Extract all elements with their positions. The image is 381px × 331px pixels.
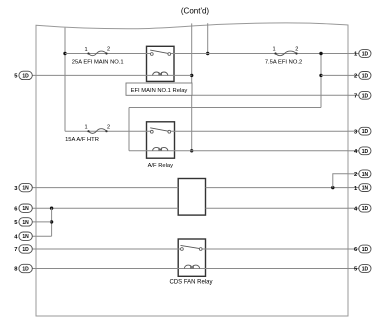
svg-text:1D: 1D — [362, 247, 369, 253]
connector 4 (1N) left — [14, 232, 32, 240]
connector 4 (1D) lower right — [354, 204, 371, 212]
connector 7 (1D) right — [354, 91, 371, 99]
wire row E (branch from x=321 down to A/F relay feed) — [129, 107, 321, 109]
connector 3 (1D) right — [354, 127, 371, 135]
wire row A left segment (fuse feed to relay switch) — [65, 53, 150, 55]
wire row B (coil feed from 5(1D) through relay coil) — [32, 74, 191, 76]
connector 1 (1D) right — [354, 50, 371, 58]
wire vertical x=321 (fuse output branch) — [320, 54, 322, 108]
coil of A/F Relay — [153, 147, 168, 150]
svg-text:1: 1 — [272, 47, 275, 53]
wire stub to connector 1 (1D) right — [348, 53, 359, 55]
svg-text:1D: 1D — [362, 129, 369, 135]
node junction at 321,75.4 — [319, 74, 322, 77]
svg-text:1N: 1N — [22, 234, 29, 240]
connector 6 (1N) left — [14, 204, 32, 212]
svg-text:7: 7 — [14, 247, 17, 253]
svg-text:1N: 1N — [22, 206, 29, 212]
svg-text:CDS FAN Relay: CDS FAN Relay — [169, 280, 212, 286]
node junction at 191.7,150.8 — [190, 149, 193, 152]
connector 2 (1D) right — [354, 72, 371, 80]
wire row J (5(1N) tie) — [32, 221, 51, 223]
svg-text:1N: 1N — [362, 172, 369, 178]
connector 5 (1D) right — [354, 265, 371, 273]
node junction at 191.7,75.4 — [190, 74, 193, 77]
relay U2 A/F Relay box — [147, 122, 175, 158]
wire vertical tie of 1N connectors — [51, 208, 53, 236]
svg-text:1N: 1N — [22, 186, 29, 192]
switch contact circles of EFI MAIN NO.1 Relay — [150, 53, 153, 56]
svg-text:1: 1 — [84, 125, 87, 131]
svg-text:1D: 1D — [362, 52, 369, 58]
wire row D (A/F relay coil row to 4(1D)) — [129, 150, 348, 152]
wire row L left (7(1D) to CDS fan relay switch) — [32, 248, 180, 250]
wire vertical coil bus from torn edge at x=191.7 — [191, 23, 193, 150]
wire row F (branch to 2(1D)) — [321, 74, 348, 76]
relay U1 EFI MAIN NO.1 Relay box — [147, 46, 175, 81]
svg-text:(Cont'd): (Cont'd) — [181, 7, 210, 16]
connector 7 (1D) left — [14, 245, 32, 253]
connector 8 (1D) left — [14, 264, 32, 272]
wire stub to connector 6 (1D) right — [348, 248, 359, 250]
node junction at 332.8,187.6 — [331, 186, 334, 189]
wire stub to connector 4 (1D) right — [348, 150, 359, 152]
connector 3 (1N) left — [14, 183, 32, 191]
wire stub to connector 7 (1D) right — [348, 94, 359, 96]
svg-text:15A A/F HTR: 15A A/F HTR — [65, 137, 99, 143]
wire vertical from torn edge at x=207.7 — [207, 23, 209, 53]
svg-text:2: 2 — [354, 74, 357, 80]
connector 5 (1N) left — [14, 218, 32, 226]
wire row C right segment (A/F relay output to 3(1D)) — [171, 130, 348, 132]
node junction at 65,53.5 — [63, 52, 66, 55]
svg-text:1D: 1D — [22, 267, 29, 273]
wire row G (boxed label to 7(1D)) — [192, 94, 348, 96]
center junction block box — [178, 179, 205, 216]
wire row I left (6(1N) to center box) — [32, 207, 178, 209]
wire stub to connector 4 (1D) lower right — [348, 207, 359, 209]
switch contact circles of A/F Relay — [150, 130, 153, 133]
connector 2 (1N) right — [354, 170, 371, 178]
coil of CDS FAN Relay — [184, 265, 199, 268]
svg-text:2: 2 — [354, 172, 357, 178]
boxed label EFI MAIN NO.1 Relay — [126, 83, 192, 95]
node junction at 321,53.5 — [319, 52, 322, 55]
svg-text:1D: 1D — [362, 206, 369, 212]
wire stub to connector 5 (1D) right — [348, 268, 359, 270]
svg-text:1D: 1D — [362, 73, 369, 79]
svg-text:1D: 1D — [362, 93, 369, 99]
wire row I right (center box to 4(1D)) — [206, 207, 349, 209]
svg-text:1D: 1D — [22, 247, 29, 253]
switch blade of CDS FAN Relay — [181, 245, 200, 248]
svg-text:25A EFI MAIN NO.1: 25A EFI MAIN NO.1 — [72, 60, 124, 66]
connector 4 (1D) right — [354, 147, 371, 155]
wire row H left (3(1N) to center box) — [32, 187, 178, 189]
relay U3 CDS FAN Relay box — [178, 239, 205, 276]
node junction at 207.7,53.5 — [206, 52, 209, 55]
wire row K (4(1N) tie) — [32, 235, 51, 237]
svg-text:1N: 1N — [22, 220, 29, 226]
node junction at 51.6,208.2 — [50, 207, 53, 210]
connector 6 (1D) right — [354, 245, 371, 253]
wire row C left segment (A/F HTR fuse row) — [65, 130, 150, 132]
wire stub to connector 1 (1N) right — [348, 187, 359, 189]
svg-text:1N: 1N — [362, 186, 369, 192]
wire vertical x=129 (down to A/F relay coil) — [128, 108, 130, 151]
wire stub to connector 3 (1D) right — [348, 130, 359, 132]
wire row A right segment (relay output to fuse EFI NO.2 and 1(1D)) — [171, 53, 348, 55]
svg-text:7.5A EFI NO.2: 7.5A EFI NO.2 — [265, 60, 302, 66]
svg-text:2: 2 — [295, 46, 298, 52]
svg-text:1: 1 — [84, 47, 87, 53]
switch blade of EFI MAIN NO.1 Relay — [150, 50, 169, 54]
connector 5 (1D) left — [14, 71, 32, 79]
wire row H right (center box to 1(1N)) — [206, 187, 349, 189]
fuse 15A A/F HTR — [89, 129, 107, 134]
svg-text:2: 2 — [107, 47, 110, 53]
svg-text:2: 2 — [107, 124, 110, 130]
wire vertical bus from torn edge at x=65 — [64, 28, 66, 132]
switch contact circles of CDS FAN Relay — [181, 248, 184, 251]
svg-text:1D: 1D — [362, 267, 369, 273]
wire stub to connector 2 (1N) right — [348, 173, 359, 175]
svg-text:1D: 1D — [362, 149, 369, 155]
svg-text:A/F Relay: A/F Relay — [148, 163, 174, 169]
wire stub to connector 2 (1D) right — [348, 74, 359, 76]
wire stub 2(1N) — [333, 174, 348, 188]
fuse 25A EFI MAIN NO.1 — [89, 51, 107, 56]
switch blade of A/F Relay — [150, 128, 169, 132]
relay box outline with wavy torn top edge — [36, 23, 348, 316]
fuse 7.5A EFI NO.2 — [276, 51, 297, 56]
wire row M (8(1D) through CDS fan relay coil to 5(1D)) — [32, 268, 348, 270]
node junction at 51.6,221.9 — [50, 220, 53, 223]
coil of EFI MAIN NO.1 Relay — [153, 72, 168, 75]
wire row L right (CDS fan relay to 6(1D)) — [202, 248, 348, 250]
svg-text:1D: 1D — [22, 73, 29, 79]
svg-text:7: 7 — [354, 94, 357, 100]
svg-text:EFI MAIN NO.1 Relay: EFI MAIN NO.1 Relay — [131, 88, 188, 94]
connector 1 (1N) right — [354, 184, 371, 192]
